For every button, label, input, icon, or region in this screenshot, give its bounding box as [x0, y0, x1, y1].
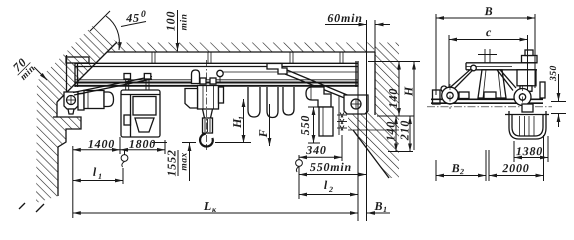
- svg-text:1: 1: [237, 116, 246, 120]
- svg-text:min: min: [180, 14, 190, 31]
- svg-text:1800: 1800: [129, 137, 156, 151]
- svg-text:c: c: [486, 25, 492, 39]
- svg-text:1400: 1400: [88, 137, 115, 151]
- svg-text:140: 140: [386, 88, 400, 108]
- svg-text:B: B: [484, 4, 494, 18]
- svg-text:max: max: [179, 152, 189, 170]
- svg-text:F: F: [256, 129, 270, 139]
- svg-text:550: 550: [298, 115, 312, 135]
- svg-text:1552: 1552: [164, 149, 178, 176]
- svg-text:2: 2: [459, 167, 464, 176]
- svg-text:45: 45: [125, 11, 140, 25]
- svg-text:L: L: [203, 199, 212, 213]
- svg-text:1380: 1380: [516, 144, 543, 158]
- svg-text:1: 1: [383, 205, 387, 214]
- svg-text:B: B: [451, 161, 461, 175]
- svg-text:350: 350: [549, 65, 559, 82]
- svg-text:140: 140: [383, 121, 397, 141]
- svg-text:2: 2: [328, 185, 333, 194]
- svg-text:l: l: [324, 178, 328, 192]
- svg-text:l: l: [93, 165, 97, 179]
- svg-text:2000: 2000: [501, 161, 529, 175]
- svg-text:H: H: [402, 86, 416, 97]
- svg-text:B: B: [374, 199, 384, 213]
- svg-text:340: 340: [305, 143, 326, 157]
- svg-text:100: 100: [164, 11, 178, 31]
- svg-text:0: 0: [141, 10, 146, 20]
- svg-text:210: 210: [397, 120, 411, 141]
- svg-text:60min: 60min: [327, 11, 362, 25]
- svg-text:1: 1: [98, 172, 102, 181]
- svg-text:550min: 550min: [310, 160, 352, 174]
